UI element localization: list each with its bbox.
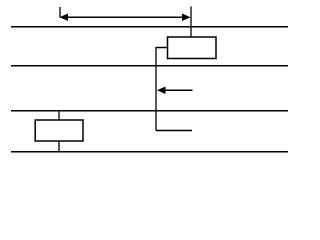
vertical drop line top <box>190 7 192 38</box>
horizontal line 2 <box>11 65 288 67</box>
tick mark left <box>59 7 61 18</box>
message arrow shaft <box>165 89 193 91</box>
vertical line center <box>155 47 157 131</box>
horizontal line 3 <box>11 110 288 112</box>
bottom stub line <box>156 130 192 132</box>
box 2 (bottom left) <box>35 120 83 141</box>
vertical connector through box 2 <box>58 111 60 152</box>
horizontal line 4 <box>11 151 288 153</box>
message arrowhead <box>157 86 166 94</box>
arrowhead right <box>182 13 191 21</box>
arrowhead left <box>60 13 69 21</box>
duration arrow shaft <box>67 16 185 18</box>
horizontal line 1 <box>11 26 288 28</box>
box 1 (top right) <box>168 37 217 59</box>
wire: connector to box 1 <box>156 47 168 49</box>
